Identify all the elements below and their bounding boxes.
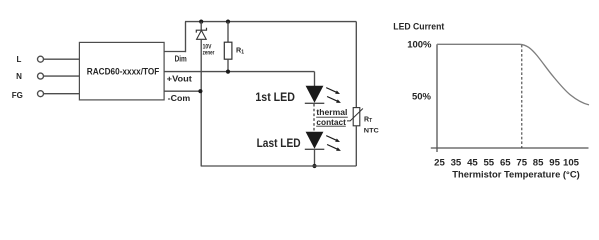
svg-text:Thermistor Temperature (°C): Thermistor Temperature (°C) xyxy=(452,169,580,179)
graph y-axis xyxy=(436,44,438,152)
terminal circle L xyxy=(38,56,44,62)
svg-text:95: 95 xyxy=(549,157,560,168)
svg-text:contact: contact xyxy=(316,118,346,127)
thermistor NTC diagonal xyxy=(347,109,363,121)
svg-text:105: 105 xyxy=(563,157,580,168)
wire R1 lower lead xyxy=(227,59,229,71)
wire +Vout horizontal xyxy=(164,71,314,73)
svg-text:1st LED: 1st LED xyxy=(255,90,295,104)
LED D3 cathode bar xyxy=(305,148,325,150)
wire N to driver xyxy=(44,75,80,77)
wire right branch lower xyxy=(355,126,357,166)
svg-text:+Vout: +Vout xyxy=(167,74,193,83)
wire -Com horizontal xyxy=(164,90,201,92)
LED D2 light arrow 2 xyxy=(327,97,337,102)
svg-text:50%: 50% xyxy=(412,92,432,103)
svg-text:Dim: Dim xyxy=(175,54,187,63)
LED D3 Last LED triangle xyxy=(306,132,324,149)
wire zener upper lead xyxy=(200,22,202,31)
terminal circle N xyxy=(38,73,44,79)
svg-text:N: N xyxy=(16,72,22,81)
terminal circle FG xyxy=(38,91,44,97)
svg-text:RACD60-xxxx/TOF: RACD60-xxxx/TOF xyxy=(87,67,160,78)
LED D3 light arrow 1 xyxy=(326,136,336,141)
svg-text:55: 55 xyxy=(483,157,494,168)
driver box U1 xyxy=(79,42,164,100)
zener diode D1 cathode bar xyxy=(196,28,206,33)
thermistor Rt body xyxy=(353,108,360,126)
junction dot bottom rail xyxy=(312,164,316,168)
wire Dim vertical riser xyxy=(185,22,187,53)
LED D3 light arrow 2 xyxy=(327,145,337,150)
graph curve LED current vs temperature xyxy=(437,44,589,105)
graph x-axis xyxy=(431,147,589,149)
LED D2 cathode bar xyxy=(305,102,325,104)
junction dot -Com xyxy=(198,89,202,93)
wire Last LED to bottom rail xyxy=(314,149,316,166)
wire FG to driver xyxy=(44,93,80,95)
zener diode D1 triangle xyxy=(197,30,207,39)
svg-text:thermal: thermal xyxy=(316,108,347,117)
svg-text:45: 45 xyxy=(467,157,478,168)
svg-text:L: L xyxy=(17,55,22,64)
LED D2 light arrow 1 xyxy=(326,88,336,93)
svg-text:LED Current: LED Current xyxy=(393,22,444,32)
wire zener lower lead down to -Com and bottom rail xyxy=(200,39,202,166)
wire bottom rail xyxy=(201,165,357,167)
wire L to driver xyxy=(44,58,80,60)
junction dot R1 bottom xyxy=(226,70,230,74)
svg-text:Last LED: Last LED xyxy=(257,136,301,150)
svg-text:zener: zener xyxy=(203,50,215,56)
graph dashed line at 75C xyxy=(521,45,523,148)
wire R1 upper lead xyxy=(227,22,229,43)
svg-text:75: 75 xyxy=(516,157,527,168)
wire top rail xyxy=(185,21,356,23)
LED D2 1st LED triangle xyxy=(306,86,324,103)
resistor R1 body xyxy=(224,42,232,59)
svg-text:65: 65 xyxy=(500,157,511,168)
junction dot zener top xyxy=(199,20,203,24)
svg-text:100%: 100% xyxy=(407,40,432,51)
svg-text:NTC: NTC xyxy=(364,128,379,135)
wire dashed LED string continuation xyxy=(313,104,315,131)
wire +Vout drop to 1st LED xyxy=(314,72,316,86)
svg-text:FG: FG xyxy=(12,91,23,100)
wire right branch upper xyxy=(355,22,357,108)
svg-text:RT: RT xyxy=(364,116,372,124)
svg-text:25: 25 xyxy=(434,157,445,168)
wire Dim horizontal xyxy=(164,51,185,53)
svg-text:-Com: -Com xyxy=(168,94,191,103)
svg-text:R1: R1 xyxy=(236,46,244,56)
svg-text:85: 85 xyxy=(533,157,544,168)
svg-text:10V: 10V xyxy=(203,44,212,50)
svg-text:35: 35 xyxy=(451,157,462,168)
junction dot R1 top xyxy=(226,20,230,24)
